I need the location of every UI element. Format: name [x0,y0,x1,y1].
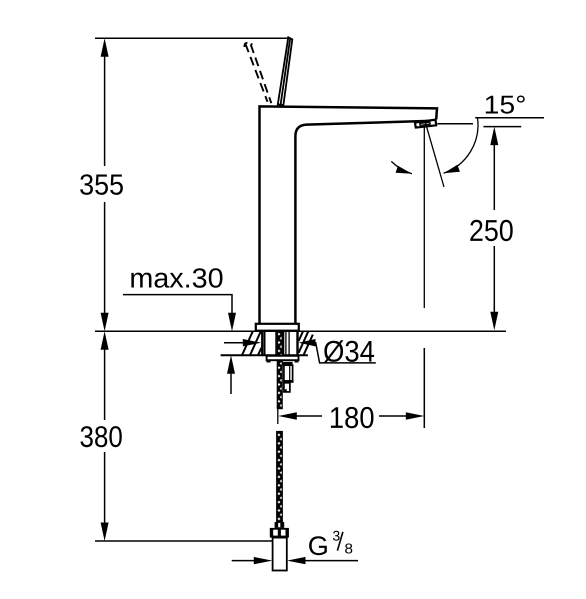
washer plate [267,356,299,360]
380 label [81,426,122,447]
mounting hole right edge [296,331,298,355]
angle arc (right, from 15 deg leader) [444,118,478,173]
bottom reference line [95,540,273,542]
180 right extension line [423,348,425,428]
mounting hole left edge [261,331,264,355]
355 label [80,174,123,195]
base flange [256,324,299,331]
spout bottom line with inner corner radius [295,121,433,324]
aerator level extension lines [437,123,473,125]
lower step tube [284,383,290,392]
hose connector nut [270,528,289,538]
counter hatching right [299,331,313,355]
vertical stream reference line [423,127,425,308]
angle arc (left small) [391,161,412,173]
hose end collar [275,522,285,528]
hose segment below washer [277,360,282,408]
spout aerator tip [415,120,436,128]
lever handle (solid position) [278,37,293,105]
nut bottom lip [283,380,293,382]
shank cylinder in hole [264,332,266,355]
top extension line [95,37,289,39]
threaded rod dark line [282,332,284,355]
15 deg label [486,96,525,114]
hose lower segment [277,432,283,523]
counter hatching left [242,331,261,355]
hose center line stub [277,409,279,424]
counter reference line [95,330,506,332]
small tubes in hole [285,332,287,355]
15 deg leader line [475,117,544,119]
lever handle (dashed alternate position) [244,43,271,103]
mounting nut [284,365,293,381]
nut top band [282,362,293,365]
counter bottom line [221,354,308,356]
faucet body outline [260,106,438,324]
355 dimension line [104,56,106,166]
water stream tilted line (15 deg) [426,123,445,187]
hose segment in hole [277,332,282,356]
G3/8 tube [273,538,287,571]
250 dimension line [493,145,495,210]
